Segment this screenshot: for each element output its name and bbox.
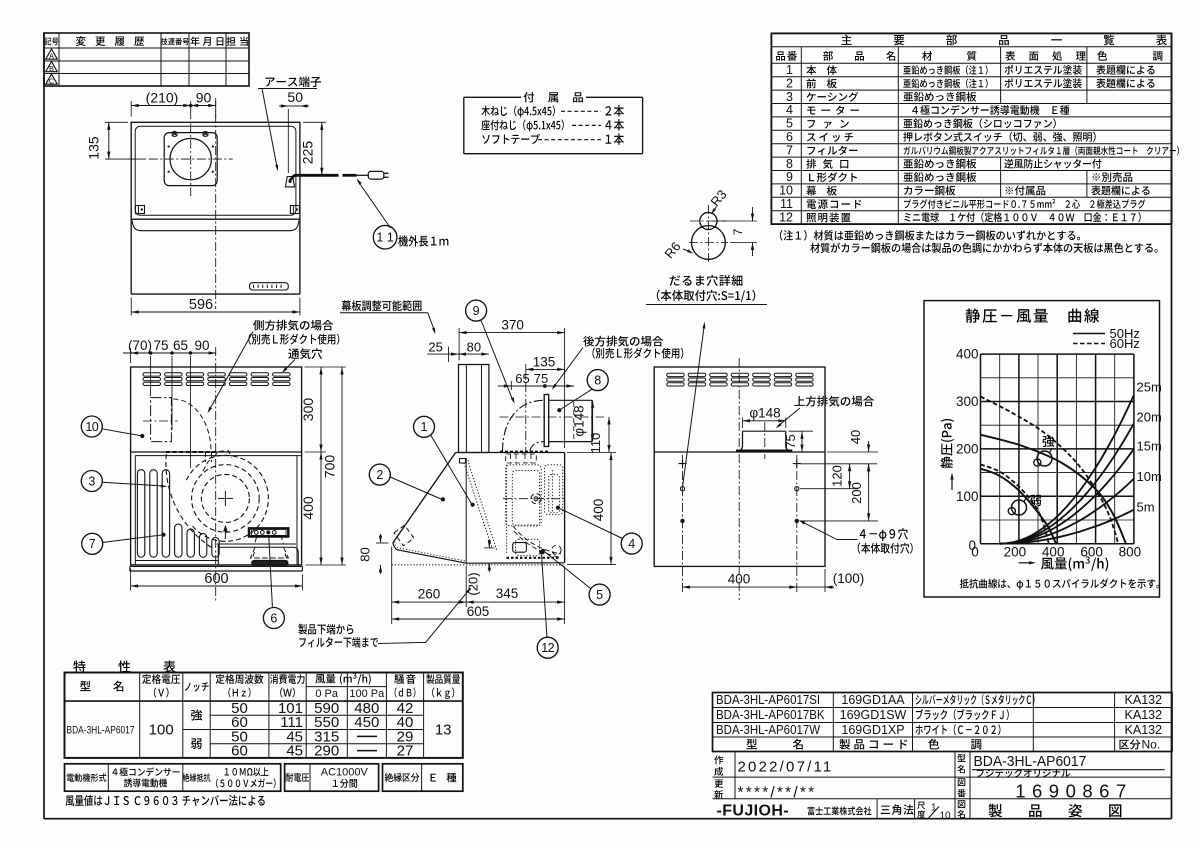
svg-text:600: 600 bbox=[1080, 545, 1103, 560]
svg-text:605: 605 bbox=[467, 604, 490, 619]
svg-text:BDA-3HL-AP6017SI: BDA-3HL-AP6017SI bbox=[716, 693, 820, 708]
rear exhaust label bbox=[583, 336, 594, 347]
hanging brackets bbox=[136, 206, 145, 214]
svg-text:(210): (210) bbox=[146, 90, 179, 106]
front view bbox=[131, 367, 302, 565]
callout 11 cord bbox=[373, 225, 397, 249]
callout 5 bbox=[589, 584, 610, 605]
svg-text:φ148: φ148 bbox=[749, 406, 780, 421]
svg-text:260: 260 bbox=[418, 587, 441, 602]
svg-text:50: 50 bbox=[287, 89, 303, 105]
svg-text:700: 700 bbox=[322, 455, 338, 479]
svg-text:800: 800 bbox=[1119, 545, 1142, 560]
svg-text:9: 9 bbox=[786, 170, 793, 184]
svg-text:110: 110 bbox=[588, 433, 603, 454]
svg-text:BDA-3HL-AP6017: BDA-3HL-AP6017 bbox=[974, 754, 1087, 770]
svg-text:0: 0 bbox=[971, 545, 979, 560]
svg-text:10m: 10m bbox=[1137, 469, 1162, 484]
svg-text:20m: 20m bbox=[1137, 410, 1162, 425]
side view body bbox=[456, 452, 565, 454]
svg-text:2: 2 bbox=[786, 76, 793, 90]
svg-text:25m: 25m bbox=[1137, 380, 1162, 395]
svg-text:A: A bbox=[49, 52, 54, 61]
svg-text:7: 7 bbox=[786, 143, 793, 157]
svg-text:135: 135 bbox=[533, 355, 556, 370]
dim 80 left bbox=[376, 542, 389, 544]
svg-text:60: 60 bbox=[231, 743, 248, 760]
motor spec row bbox=[65, 764, 281, 791]
callout 6 bbox=[263, 608, 284, 629]
svg-text:40: 40 bbox=[848, 430, 863, 444]
revision history table bbox=[44, 33, 249, 86]
hole label bbox=[860, 529, 866, 538]
switch panel bbox=[249, 528, 288, 536]
svg-text:169GD1XP: 169GD1XP bbox=[841, 723, 904, 737]
svg-text:200: 200 bbox=[849, 482, 864, 504]
svg-text:450: 450 bbox=[354, 714, 379, 731]
dims 40 120 200 bbox=[827, 451, 878, 453]
dim phi148 rear bbox=[742, 418, 744, 429]
duct flange bbox=[164, 133, 217, 186]
side view duct cover 幕板 bbox=[459, 365, 489, 453]
svg-text:4: 4 bbox=[786, 103, 793, 117]
front lip optional box bbox=[394, 525, 414, 546]
casing hidden lines bbox=[506, 465, 542, 526]
svg-text:3: 3 bbox=[786, 90, 793, 104]
dim 135 / 65 75 bbox=[525, 364, 527, 380]
svg-text:300: 300 bbox=[956, 394, 979, 409]
svg-text:80: 80 bbox=[467, 340, 481, 355]
svg-text:200: 200 bbox=[1004, 545, 1027, 560]
static pressure / air flow graph bbox=[924, 301, 1160, 597]
svg-text:100: 100 bbox=[149, 722, 174, 739]
svg-text:65: 65 bbox=[515, 371, 529, 386]
svg-text:7: 7 bbox=[731, 228, 745, 235]
svg-text:400: 400 bbox=[728, 572, 751, 587]
svg-text:BDA-3HL-AP6017W: BDA-3HL-AP6017W bbox=[716, 723, 821, 738]
svg-text:BDA-3HL-AP6017: BDA-3HL-AP6017 bbox=[67, 724, 135, 737]
svg-text:90: 90 bbox=[194, 338, 209, 353]
callout 3 bbox=[81, 471, 102, 492]
graph note bbox=[960, 579, 969, 589]
svg-text:B: B bbox=[49, 64, 54, 73]
svg-text:12: 12 bbox=[779, 210, 793, 224]
power cord bbox=[286, 177, 295, 187]
blower scroll dashed bbox=[166, 454, 213, 548]
jis note bbox=[65, 795, 74, 806]
dim 135 bbox=[105, 121, 128, 123]
vent slots bbox=[143, 373, 161, 376]
dims 260 345 605 bbox=[391, 547, 393, 625]
svg-text:12: 12 bbox=[541, 641, 554, 655]
L-duct elbow (option) bbox=[503, 400, 545, 451]
svg-text:75: 75 bbox=[153, 338, 168, 353]
svg-text:169GD1AA: 169GD1AA bbox=[841, 693, 905, 707]
svg-text:370: 370 bbox=[501, 318, 524, 333]
svg-text:225: 225 bbox=[300, 141, 316, 165]
svg-text:No.: No. bbox=[1142, 738, 1161, 752]
labels front view bbox=[253, 320, 264, 331]
svg-text:C: C bbox=[49, 77, 55, 86]
svg-text:1 1: 1 1 bbox=[376, 231, 393, 245]
svg-text:6: 6 bbox=[270, 611, 277, 625]
svg-text:(100): (100) bbox=[833, 571, 865, 586]
svg-text:400: 400 bbox=[591, 499, 606, 522]
front right dims 300 400 700 bbox=[305, 366, 347, 368]
svg-text:25: 25 bbox=[428, 340, 442, 355]
svg-text:5m: 5m bbox=[1137, 500, 1155, 515]
title block color table bbox=[713, 693, 1173, 752]
callout 12 bbox=[537, 637, 558, 658]
svg-text:45: 45 bbox=[286, 743, 303, 760]
svg-text:400: 400 bbox=[300, 496, 316, 520]
lamp in side view bbox=[516, 539, 540, 556]
svg-text:KA132: KA132 bbox=[1125, 708, 1163, 722]
svg-text:KA132: KA132 bbox=[1125, 693, 1163, 707]
svg-text:2022/07/11: 2022/07/11 bbox=[738, 759, 834, 776]
svg-text:10: 10 bbox=[779, 184, 793, 198]
svg-text:200: 200 bbox=[956, 441, 979, 456]
svg-text:100: 100 bbox=[956, 489, 979, 504]
svg-text:60Hz: 60Hz bbox=[1110, 336, 1140, 351]
svg-text:9: 9 bbox=[473, 304, 480, 318]
accessories box 付属品 bbox=[463, 97, 465, 153]
callout 2 bbox=[369, 464, 390, 485]
svg-text:290: 290 bbox=[314, 743, 339, 760]
svg-text:φ148: φ148 bbox=[572, 405, 587, 436]
svg-text:2: 2 bbox=[376, 468, 383, 482]
svg-text:345: 345 bbox=[496, 586, 519, 601]
hood front (top view) bbox=[130, 219, 132, 294]
svg-text:596: 596 bbox=[189, 297, 213, 313]
svg-text:-FUJIOH-: -FUJIOH- bbox=[717, 803, 790, 820]
svg-text:27: 27 bbox=[397, 743, 414, 760]
svg-text:400: 400 bbox=[956, 347, 979, 362]
earth terminal label bbox=[265, 78, 274, 87]
callout 4 bbox=[621, 533, 642, 554]
top exhaust stub bbox=[743, 430, 786, 432]
svg-text:1690867: 1690867 bbox=[1015, 781, 1133, 802]
rear view bbox=[654, 367, 825, 566]
svg-text:8: 8 bbox=[594, 373, 601, 387]
svg-text:300: 300 bbox=[300, 398, 316, 422]
title block lower bbox=[713, 776, 1173, 778]
svg-text:10: 10 bbox=[940, 811, 952, 822]
svg-text:15m: 15m bbox=[1137, 439, 1162, 454]
characteristics table title bbox=[73, 661, 85, 673]
svg-text:5: 5 bbox=[596, 588, 603, 602]
fan curve strong 50Hz bbox=[981, 435, 1127, 544]
svg-text:10: 10 bbox=[85, 420, 98, 434]
svg-text:75: 75 bbox=[534, 371, 548, 386]
svg-text:75: 75 bbox=[783, 434, 798, 448]
dim (210) 90 bbox=[130, 101, 132, 117]
rear vents bbox=[667, 373, 685, 376]
svg-text:BDA-3HL-AP6017BK: BDA-3HL-AP6017BK bbox=[716, 708, 825, 723]
svg-text:13: 13 bbox=[435, 722, 452, 739]
svg-text:5: 5 bbox=[786, 117, 793, 131]
svg-text:80: 80 bbox=[358, 547, 373, 561]
svg-text:400: 400 bbox=[1042, 545, 1065, 560]
dims 25 80 bbox=[448, 347, 450, 363]
dim 225 bbox=[303, 121, 326, 123]
callout 7 bbox=[82, 533, 103, 554]
fan curve weak 60Hz bbox=[981, 464, 1049, 543]
lamp cover bbox=[255, 537, 284, 544]
parts table notes bbox=[780, 230, 783, 241]
callout 9 bbox=[466, 300, 487, 321]
svg-text:8: 8 bbox=[786, 157, 793, 171]
svg-text:100 Pa: 100 Pa bbox=[349, 688, 385, 700]
svg-text:11: 11 bbox=[780, 197, 793, 211]
filter slats bbox=[137, 470, 144, 558]
svg-text:****/**/**: ****/**/** bbox=[738, 785, 817, 802]
duct resistance curves bbox=[1000, 395, 1134, 544]
svg-text:120: 120 bbox=[830, 465, 845, 487]
fan curve strong 60Hz bbox=[981, 397, 1119, 544]
daruma hole detail bbox=[692, 226, 726, 260]
svg-text:4: 4 bbox=[628, 537, 635, 551]
svg-text:1: 1 bbox=[786, 63, 793, 77]
mounting holes bbox=[682, 455, 684, 592]
svg-text:90: 90 bbox=[196, 90, 212, 106]
dim phi148 110 400 bbox=[592, 400, 594, 441]
svg-text:7: 7 bbox=[89, 537, 96, 551]
dim 600 bbox=[130, 569, 132, 591]
svg-text:0 Pa: 0 Pa bbox=[315, 688, 339, 700]
callout 1 bbox=[414, 416, 435, 437]
characteristics table bbox=[65, 673, 463, 758]
top view of hood bbox=[131, 122, 300, 219]
svg-text:3: 3 bbox=[88, 474, 95, 488]
dim 370 bbox=[458, 328, 460, 361]
dim (20) bbox=[484, 547, 495, 549]
svg-text:AC1000V: AC1000V bbox=[321, 767, 369, 779]
fan curve weak 50Hz bbox=[981, 469, 1057, 544]
dim 50 bbox=[287, 109, 289, 173]
front top dims bbox=[130, 348, 132, 363]
svg-text:169GD1SW: 169GD1SW bbox=[840, 708, 907, 722]
exhaust flange and pipe bbox=[544, 395, 549, 447]
svg-text:65: 65 bbox=[173, 338, 188, 353]
callout 10 bbox=[81, 416, 102, 437]
curve labels strong/weak bbox=[1043, 435, 1055, 447]
svg-text:KA132: KA132 bbox=[1125, 723, 1163, 737]
main parts list table bbox=[771, 33, 1171, 224]
svg-text:135: 135 bbox=[86, 136, 102, 160]
dim 596 bbox=[130, 298, 132, 316]
svg-text:6: 6 bbox=[786, 130, 793, 144]
svg-text:(70): (70) bbox=[128, 338, 152, 353]
svg-text:1: 1 bbox=[421, 420, 428, 434]
filter bottom note bbox=[298, 624, 307, 635]
blower outlet bbox=[500, 451, 550, 453]
side exhaust option (phantom) bbox=[151, 398, 172, 442]
drawing frame bbox=[43, 33, 45, 819]
callout 8 bbox=[587, 370, 608, 391]
svg-text:600: 600 bbox=[204, 571, 228, 587]
dims 400 (100) bbox=[824, 569, 826, 592]
